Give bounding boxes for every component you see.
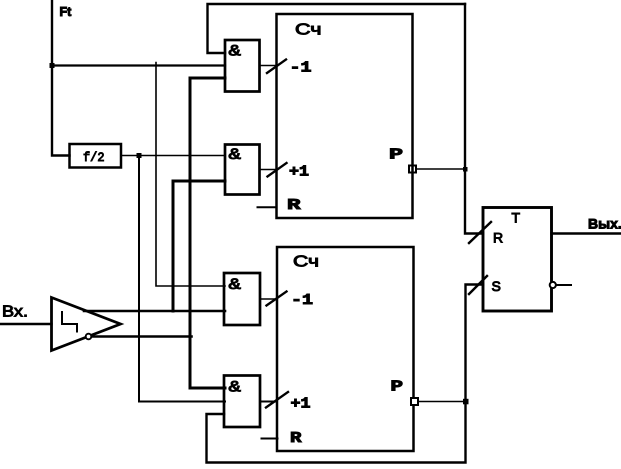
and gate U1 <box>225 40 260 92</box>
wire schmitt direct output to U3 <box>84 310 225 313</box>
wire counter2 P output to right vertical <box>418 401 466 403</box>
svg-text:P: P <box>391 378 404 395</box>
wire schmitt inverted output <box>92 335 192 338</box>
wire Ft horizontal feed to U1 <box>52 64 225 66</box>
wire counter1 P loop over top to U1 <box>208 4 466 53</box>
svg-text:+1: +1 <box>289 164 309 181</box>
svg-text:Вых.: Вых. <box>588 216 621 232</box>
svg-text:f/2: f/2 <box>83 150 105 165</box>
svg-text:R: R <box>493 230 503 246</box>
and gate U3 <box>224 273 260 325</box>
svg-text:-1: -1 <box>291 292 313 309</box>
wire counter2 P feedback loop to U4 and T S input <box>207 285 484 463</box>
junction counter2 P on feedback vertical <box>463 399 469 405</box>
pin T R slash <box>469 222 491 243</box>
svg-text:Сч: Сч <box>295 22 322 39</box>
T flip-flop U6 box <box>483 208 552 312</box>
pin P port square counter2 <box>411 398 418 405</box>
counter1 Сч box <box>277 14 413 218</box>
wire T output Вых. <box>552 232 621 234</box>
svg-text:R: R <box>290 430 302 447</box>
pin T S slash <box>469 276 487 294</box>
wire f/2 output to U2 <box>121 155 225 157</box>
svg-text:S: S <box>492 278 501 294</box>
schmitt hysteresis symbol <box>62 312 77 332</box>
svg-text:&: & <box>229 146 242 164</box>
pin counter1 -1 slash <box>267 60 286 74</box>
svg-text:Вх.: Вх. <box>2 304 28 321</box>
T inverted output bubble <box>550 282 556 288</box>
svg-text:Сч: Сч <box>293 254 319 271</box>
wire schmitt direct output up to U2 <box>173 181 225 311</box>
and gate U4 <box>224 376 260 428</box>
svg-text:-1: -1 <box>290 60 312 77</box>
wire Ft branch down to U3 <box>156 63 225 287</box>
svg-text:T: T <box>512 210 521 226</box>
schmitt inversion bubble <box>86 334 92 340</box>
svg-text:+1: +1 <box>291 396 311 413</box>
pin counter2 +1 slash <box>266 392 288 408</box>
svg-text:&: & <box>229 379 242 397</box>
junction counter1 P on right vertical <box>463 167 468 172</box>
wire T inverted output stub <box>557 284 572 286</box>
and gate U2 <box>225 145 260 195</box>
wire Ft vertical trunk down to divider input <box>52 1 70 156</box>
wire counter1 P output <box>416 168 465 170</box>
wire schmitt inverted output vertical to U1 and U4 <box>190 78 225 388</box>
wire U3 output to counter2 <box>260 298 277 300</box>
wire U4 output to counter2 <box>260 401 277 403</box>
pin counter1 +1 slash <box>268 163 287 177</box>
counter2 Сч box <box>277 247 414 451</box>
schmitt trigger U5 triangle <box>52 298 121 351</box>
pin counter2 -1 slash <box>267 292 287 306</box>
pin counter1 R stub <box>258 206 277 208</box>
svg-text:&: & <box>229 43 242 61</box>
junction f/2 output branch <box>137 153 142 158</box>
wire input to schmitt <box>1 323 52 325</box>
wire U2 output to counter1 <box>260 169 277 171</box>
svg-text:R: R <box>287 197 301 214</box>
svg-text:&: & <box>229 276 242 294</box>
svg-text:P: P <box>389 147 403 164</box>
wire right vertical down to T R input <box>465 4 483 234</box>
wire f/2 branch down to U4 <box>139 156 225 402</box>
wire U1 output to counter1 <box>260 65 277 67</box>
junction Ft trunk / horizontal feed <box>50 63 55 68</box>
divider f/2 <box>70 144 122 168</box>
svg-text:Ft: Ft <box>60 5 73 19</box>
pin counter2 R stub <box>262 438 278 440</box>
pin P port square counter1 <box>409 166 416 173</box>
